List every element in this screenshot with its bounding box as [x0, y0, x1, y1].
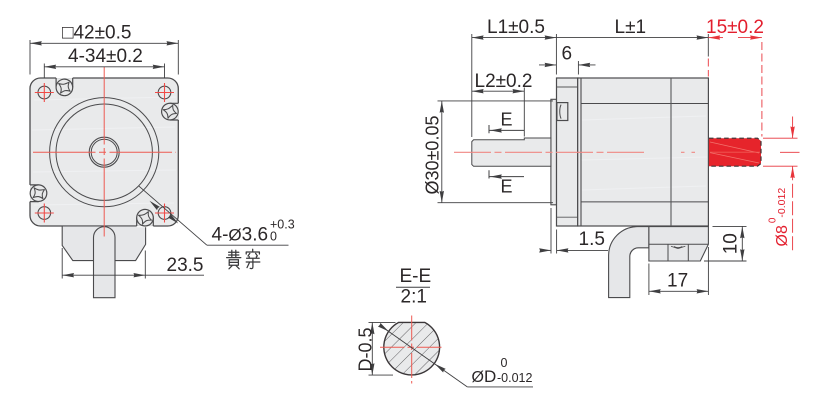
dim 10	[704, 226, 747, 261]
screw top	[53, 76, 76, 99]
dimension 4-34	[44, 64, 164, 79]
connector housing below flange	[62, 226, 145, 261]
section circle with flat	[384, 322, 440, 375]
screw left	[27, 182, 50, 205]
emblem in block	[671, 246, 685, 248]
body left seam	[580, 78, 582, 226]
贯	[227, 250, 241, 257]
dim L	[556, 37, 708, 39]
front view centerline vertical	[103, 67, 105, 237]
leader 4-phi3.6	[139, 186, 289, 245]
穿	[246, 249, 259, 256]
motor flange square	[30, 78, 178, 226]
front cap inner circle	[56, 104, 152, 200]
side view centerline	[454, 151, 779, 153]
dim 6	[539, 61, 596, 75]
section mark E upper	[489, 125, 524, 133]
motor body	[578, 78, 709, 226]
svg-text:4-Ø3.6: 4-Ø3.6	[212, 225, 269, 246]
dim 17	[649, 247, 709, 295]
body bottom seam	[581, 201, 708, 203]
red crosses on holes	[35, 83, 174, 223]
body top seam	[581, 103, 708, 105]
svg-text:D-0.5: D-0.5	[356, 327, 376, 371]
svg-text:Ø30±0.05: Ø30±0.05	[423, 116, 443, 195]
dim phi8 red	[763, 117, 800, 251]
svg-text:10: 10	[721, 233, 742, 254]
svg-text:E-E: E-E	[400, 266, 432, 287]
section mark E lower	[489, 170, 524, 178]
mounting hole bottom-left	[38, 207, 51, 220]
svg-text:0: 0	[501, 356, 508, 370]
dimension 23.5	[62, 248, 204, 279]
dimension square 42	[30, 40, 178, 75]
text guan-chuan (through)	[227, 249, 260, 268]
flange corner lines	[557, 86, 578, 88]
svg-text:15±0.2: 15±0.2	[706, 17, 764, 38]
flange plate	[557, 78, 578, 226]
cable conduit (side)	[609, 227, 649, 298]
svg-text:L1±0.5: L1±0.5	[487, 17, 545, 38]
rear end cap block	[649, 227, 709, 261]
screw bottom	[134, 207, 156, 229]
dim phiD leader	[380, 325, 534, 387]
screw pocket bottom	[137, 218, 154, 226]
svg-text:ØD: ØD	[472, 367, 497, 386]
svg-text:17: 17	[667, 271, 688, 292]
svg-text:23.5: 23.5	[167, 255, 204, 276]
dim 1.5	[540, 208, 608, 254]
dim 15 red	[708, 38, 762, 137]
shaft bore circle	[91, 139, 117, 165]
dim L2	[472, 88, 525, 137]
screw right	[159, 101, 180, 122]
cable	[94, 227, 116, 298]
svg-text:L±1: L±1	[615, 17, 647, 38]
svg-text:L2±0.2: L2±0.2	[475, 71, 533, 92]
svg-text:2:1: 2:1	[401, 287, 427, 308]
screw pocket left	[30, 185, 39, 202]
notch edge masks	[29, 77, 180, 227]
screw pocket right	[170, 103, 178, 120]
pilot boss (1.5mm)	[551, 99, 557, 205]
dim L1	[472, 34, 557, 137]
screw pocket top	[56, 78, 73, 87]
svg-text:4-34±0.2: 4-34±0.2	[68, 46, 143, 67]
screw pocket in flange (side)	[557, 103, 568, 121]
mounting hole bottom-right	[158, 207, 171, 220]
svg-text:0: 0	[270, 230, 277, 244]
rear cap seam	[670, 78, 672, 226]
svg-text:6: 6	[562, 44, 573, 65]
mounting hole top-left	[38, 86, 51, 99]
rear shaft (red)	[709, 138, 761, 166]
mounting hole top-right	[158, 86, 171, 99]
svg-text:-0.012: -0.012	[497, 371, 532, 385]
section centerlines	[380, 346, 444, 348]
svg-text:E: E	[501, 177, 513, 197]
svg-text:E: E	[501, 110, 513, 130]
svg-text:1.5: 1.5	[579, 229, 605, 250]
front view centerline horizontal	[33, 151, 176, 153]
front shaft	[472, 138, 551, 166]
front cap outer circle	[50, 98, 159, 207]
dim phi30	[438, 101, 554, 203]
shaft boss circle	[89, 137, 119, 167]
dim D-0.5	[369, 322, 396, 375]
svg-text:□42±0.5: □42±0.5	[62, 23, 131, 44]
